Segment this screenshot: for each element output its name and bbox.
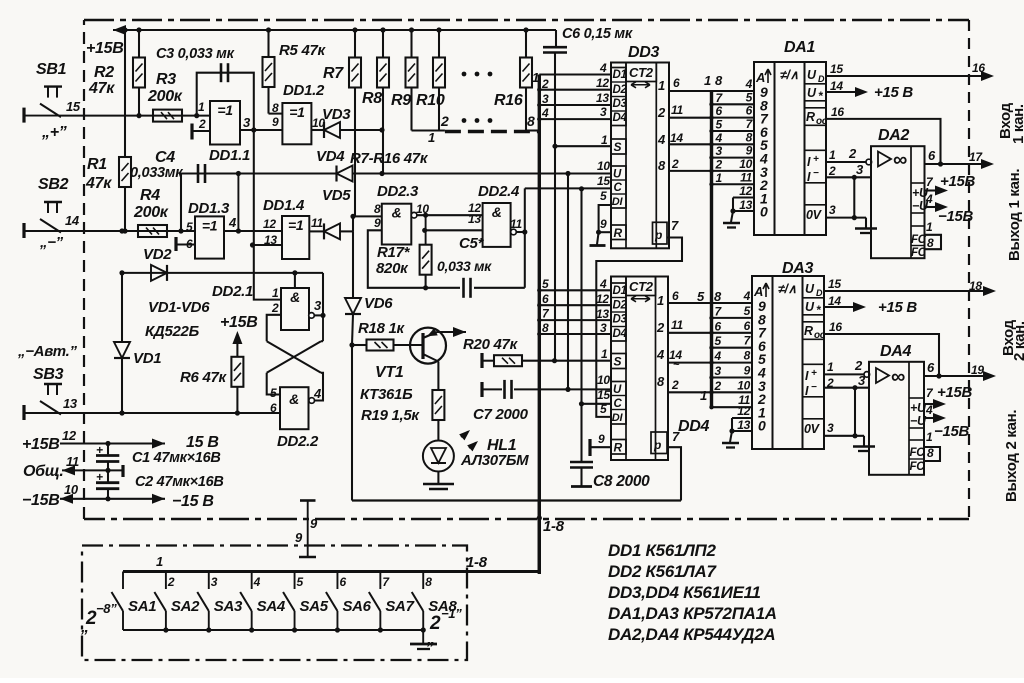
- DD3 C row label: [597, 174, 610, 188]
- svg-text:4: 4: [715, 131, 723, 145]
- svg-text:SA2: SA2: [171, 598, 200, 615]
- label +15V top-left: [86, 40, 124, 57]
- svg-text:15: 15: [828, 277, 841, 291]
- DD3 output 8: [658, 158, 666, 173]
- DA3 rows 12 13: [722, 404, 752, 448]
- label R6 47k: [180, 369, 228, 386]
- label VD6: [364, 295, 393, 312]
- label R20 47k: [463, 336, 519, 353]
- DD3 ground: [590, 232, 606, 245]
- label R3: [147, 71, 183, 105]
- diode VD4 on U-line: [337, 166, 353, 182]
- svg-text:R5 47к: R5 47к: [279, 42, 327, 59]
- SA bus 1-8 (thick): [123, 554, 539, 572]
- svg-text:„−”: „−”: [39, 234, 64, 251]
- svg-text:9: 9: [374, 216, 381, 230]
- label pin5 DD2.2: [270, 386, 277, 400]
- svg-text:КТ361Б: КТ361Б: [360, 386, 413, 403]
- DD3 UCD cells: [611, 166, 626, 208]
- wire label 3: [542, 92, 549, 106]
- DA3 pin15 line: [824, 277, 996, 296]
- svg-text:+15В: +15В: [940, 173, 976, 190]
- svg-text:4: 4: [656, 347, 665, 362]
- svg-text:FC: FC: [910, 461, 926, 473]
- capacitor C3 feedback loop: [197, 63, 257, 132]
- svg-text:0V: 0V: [806, 208, 823, 222]
- svg-text:D: D: [816, 288, 823, 298]
- svg-text:DD2.3: DD2.3: [377, 183, 419, 200]
- svg-text:R7-R16 47к: R7-R16 47к: [350, 150, 429, 167]
- DA1 pin2 I-: [826, 164, 872, 180]
- DA2 pin7 +15V: [925, 173, 976, 196]
- svg-text:CT2: CT2: [629, 279, 654, 294]
- svg-text:КД522Б: КД522Б: [145, 323, 200, 340]
- label pin4 DD2.2: [313, 386, 322, 401]
- label R5 47k: [279, 42, 327, 59]
- svg-text:C4: C4: [155, 149, 175, 166]
- svg-text:&: &: [492, 204, 502, 220]
- svg-text:3: 3: [243, 115, 251, 130]
- trunk bus wires 1-8 (thick): [537, 75, 542, 572]
- wire line13: [62, 410, 280, 415]
- svg-text:6: 6: [716, 104, 723, 118]
- wire DD1.2 out pin10: [311, 129, 313, 131]
- svg-text:16: 16: [831, 105, 844, 119]
- svg-text:+15В: +15В: [220, 314, 258, 331]
- svg-text:C2 47мк×16В: C2 47мк×16В: [135, 474, 224, 490]
- DA4 pin4 -15V: [924, 403, 970, 440]
- svg-text:CT2: CT2: [629, 65, 654, 80]
- svg-text:4: 4: [599, 277, 607, 291]
- switch levers SA1-SA8: [112, 572, 433, 633]
- svg-text:4: 4: [925, 403, 933, 417]
- label KD522B: [145, 323, 200, 340]
- svg-text:Выход 2 кан.: Выход 2 кан.: [1003, 410, 1020, 502]
- DA2 FC jumper: [925, 220, 942, 250]
- op-amp DA4: [869, 362, 927, 475]
- wire DD2.4 out up: [516, 188, 527, 287]
- capacitor C1 electrolytic: [96, 443, 119, 470]
- capacitor C7: [482, 380, 611, 399]
- LED arrows: [459, 430, 478, 451]
- diode VD5: [309, 216, 353, 239]
- svg-text:11: 11: [510, 217, 522, 231]
- svg-text:~: ~: [673, 359, 680, 371]
- label 3 DA2in: [856, 162, 864, 177]
- counter DD3 box: [611, 63, 669, 249]
- label SB3: [33, 366, 64, 383]
- wire DD1.1 out pin3: [240, 129, 282, 131]
- DD4 out row8: [668, 378, 712, 392]
- DA3 pin2 I-: [824, 376, 870, 390]
- svg-text:R4: R4: [140, 187, 160, 204]
- +15V supply rail: [113, 25, 556, 35]
- svg-text:11: 11: [740, 170, 752, 184]
- svg-text:6: 6: [927, 360, 935, 375]
- DD3 R cell: [611, 225, 626, 240]
- DD4 S cell: [611, 354, 626, 369]
- DD4 CT2 cell: [626, 277, 656, 302]
- transistor VT1 base bar: [421, 333, 424, 359]
- DD4 D4 row: [539, 321, 611, 335]
- label pin6 DD2.2: [270, 401, 277, 415]
- transistor VT1 collector: [423, 354, 438, 390]
- svg-text:47к: 47к: [85, 175, 112, 192]
- svg-text:A: A: [755, 70, 765, 85]
- svg-text:∞: ∞: [893, 149, 907, 171]
- svg-text:Выход 1 кан.: Выход 1 кан.: [1006, 169, 1023, 261]
- wire label 8: [542, 321, 549, 335]
- label pin11 DD2.4: [510, 217, 522, 231]
- resistor R18: [349, 340, 423, 351]
- C feed: [579, 189, 584, 461]
- DA4 FC jumper: [924, 430, 940, 461]
- svg-text:15: 15: [597, 174, 610, 188]
- DD3 out row1: [669, 76, 712, 91]
- label C5: [459, 235, 485, 252]
- resistor R8: [377, 27, 389, 173]
- svg-text:SA6: SA6: [342, 598, 371, 615]
- wire DD1.1out down to DD1.4 pin13 and DD2.1 pin1: [250, 130, 282, 300]
- wire label 7: [542, 307, 550, 321]
- label R10: [416, 92, 445, 109]
- svg-text:2: 2: [828, 164, 836, 178]
- svg-text:D4: D4: [613, 112, 628, 124]
- label 7 P DD4: [672, 429, 680, 444]
- svg-text:2 кан.: 2 кан.: [1011, 321, 1024, 361]
- svg-text:DA2,DA4 КР544УД2А: DA2,DA4 КР544УД2А: [608, 625, 775, 644]
- svg-text:SB1: SB1: [36, 61, 67, 78]
- DD4 UCD cells: [611, 382, 626, 425]
- svg-text:13: 13: [596, 307, 609, 321]
- DA1 rows 12 13: [723, 184, 754, 228]
- svg-text:2: 2: [657, 105, 666, 120]
- svg-text:+15 В: +15 В: [874, 84, 913, 101]
- svg-text:=1: =1: [217, 102, 233, 118]
- label R7: [323, 65, 344, 82]
- svg-text:2: 2: [198, 117, 206, 131]
- connector pin18: [969, 279, 982, 293]
- svg-text:DD4: DD4: [678, 418, 710, 435]
- svg-text:R16: R16: [494, 92, 523, 109]
- label C7 2000: [473, 406, 529, 423]
- svg-text:DD1.1: DD1.1: [209, 147, 250, 164]
- label VD5: [322, 187, 351, 204]
- svg-text:+15 В: +15 В: [878, 299, 917, 316]
- label R9: [391, 92, 411, 109]
- svg-text:−U: −U: [910, 414, 927, 428]
- label VD4: [316, 148, 345, 165]
- DD3 out row2: [669, 103, 712, 118]
- nand gate DD2.1: [281, 288, 314, 330]
- DD3 D1 row: [539, 61, 611, 75]
- svg-text:3: 3: [600, 321, 607, 335]
- svg-text:13: 13: [596, 91, 609, 105]
- tick pin15: [83, 104, 85, 116]
- svg-text:≠/∧: ≠/∧: [778, 282, 797, 296]
- label obsh: [23, 463, 64, 480]
- label R18 1k: [358, 320, 406, 337]
- svg-text:U: U: [613, 384, 622, 396]
- svg-text:8: 8: [715, 73, 723, 88]
- svg-text:3: 3: [314, 298, 322, 313]
- trunk to SA box: [538, 501, 541, 575]
- DAC DA3: [752, 276, 826, 449]
- label 1-8 at frame: [543, 518, 565, 535]
- svg-text:R2: R2: [94, 64, 114, 81]
- wire DD1.3 out pin4 to DD1.4 pin12: [224, 228, 282, 233]
- svg-text:13: 13: [737, 418, 750, 432]
- svg-text:6: 6: [542, 292, 549, 306]
- DD4 D3 row: [539, 307, 611, 321]
- parts list DD3 DD4: [608, 583, 761, 602]
- svg-text:1: 1: [657, 293, 664, 308]
- push button SB2: [24, 202, 62, 238]
- diode VD2 line: [119, 270, 323, 275]
- svg-text:D1: D1: [613, 69, 627, 81]
- label DD2.3: [377, 183, 419, 200]
- svg-text:1: 1: [428, 130, 435, 145]
- svg-text:3: 3: [600, 105, 607, 119]
- label DA3: [782, 260, 814, 277]
- svg-text:D: D: [818, 74, 825, 84]
- svg-text:R10: R10: [416, 92, 445, 109]
- DD3 D3 row: [539, 91, 611, 105]
- svg-text:200к: 200к: [133, 204, 169, 221]
- svg-text:8: 8: [927, 446, 934, 460]
- label DD1.3: [188, 200, 230, 217]
- svg-text:1: 1: [704, 73, 711, 88]
- main device boundary frame right (dashed): [968, 20, 970, 520]
- label -15V right: [172, 493, 214, 510]
- label 1 trunk2b: [700, 388, 707, 403]
- svg-text:3: 3: [715, 364, 722, 378]
- svg-text:DA4: DA4: [880, 343, 912, 360]
- DD3 S cell: [611, 139, 626, 154]
- svg-text:+: +: [96, 443, 103, 457]
- LED HL1: [423, 441, 454, 472]
- label plus: [41, 124, 67, 141]
- svg-text:=1: =1: [288, 217, 304, 233]
- group bus line R7-R16 (thick dashed): [445, 130, 539, 134]
- svg-text:R20 47к: R20 47к: [463, 336, 519, 353]
- C-line to counters: [525, 186, 611, 191]
- svg-text:18: 18: [969, 279, 982, 293]
- svg-text:C3 0,033 мк: C3 0,033 мк: [156, 46, 235, 62]
- label 1 bus top: [532, 70, 539, 85]
- DD3 out row8: [669, 157, 712, 171]
- label AL307: [460, 452, 529, 469]
- svg-text:200к: 200к: [147, 88, 183, 105]
- diode VD2: [151, 265, 167, 281]
- DD3 out row4: [669, 131, 712, 145]
- label pin9 DD2.3: [374, 216, 381, 230]
- svg-text:„−Авт.”: „−Авт.”: [17, 343, 77, 360]
- svg-text:R9: R9: [391, 92, 411, 109]
- svg-text:2: 2: [541, 77, 549, 91]
- svg-text:11: 11: [671, 318, 683, 332]
- label pin3 DD2.1: [314, 298, 322, 313]
- label SB2: [38, 176, 69, 193]
- pin 15: [66, 99, 81, 114]
- svg-text:FC: FC: [910, 447, 926, 459]
- svg-text:DA1: DA1: [784, 39, 816, 56]
- cross coupling upper: [267, 315, 281, 341]
- DD3 CT2 cell: [626, 63, 656, 88]
- wire DD2.1out down to X: [321, 315, 323, 341]
- svg-text:DD3: DD3: [628, 44, 660, 61]
- svg-text:C6 0,15 мк: C6 0,15 мк: [562, 26, 633, 42]
- svg-text:7: 7: [672, 429, 680, 444]
- DA1 pin3 0V: [826, 177, 866, 220]
- svg-text:15: 15: [597, 388, 610, 402]
- label 2-1: [426, 606, 462, 648]
- DA1 pin15 line (UD out): [826, 62, 994, 81]
- svg-text:8: 8: [658, 158, 666, 173]
- cross coupling lower-left: [267, 373, 280, 395]
- DD3 output 4: [657, 132, 666, 147]
- svg-text:16: 16: [829, 320, 842, 334]
- DA3 pin16 Roc: [824, 320, 939, 376]
- label minus: [39, 234, 64, 251]
- svg-text:0,033мк: 0,033мк: [130, 165, 183, 181]
- label C5 value: [437, 258, 492, 274]
- svg-text:&: &: [392, 205, 402, 221]
- svg-text:DA3: DA3: [782, 260, 814, 277]
- svg-text:5: 5: [270, 386, 277, 400]
- label R7-R16 47k: [350, 150, 429, 167]
- label R8: [362, 90, 382, 107]
- svg-text:R7: R7: [323, 65, 344, 82]
- SA bottom bus: [123, 629, 423, 631]
- nand gate DD2.4: [483, 203, 517, 247]
- svg-text:8: 8: [374, 202, 381, 216]
- resistor R10: [433, 27, 445, 130]
- svg-text:+15В: +15В: [86, 40, 124, 57]
- svg-text:+: +: [811, 368, 817, 379]
- xor gate DD1.1: [210, 101, 240, 145]
- svg-text:&: &: [290, 289, 300, 305]
- -15V row: [60, 482, 165, 504]
- svg-text:3: 3: [858, 373, 866, 388]
- svg-text:1: 1: [156, 554, 163, 569]
- label KT361B: [360, 386, 413, 403]
- label 5 trunk2b: [697, 289, 705, 304]
- wire VD5 node to DD2.3 pin8: [350, 214, 381, 219]
- svg-text:6: 6: [672, 289, 679, 303]
- wire VD2line to DD2.1 box top: [294, 273, 296, 288]
- label R17: [377, 244, 411, 261]
- svg-text:SA4: SA4: [257, 598, 286, 615]
- svg-text:Общ.: Общ.: [23, 463, 64, 480]
- svg-text:8: 8: [425, 575, 432, 589]
- DA1 input rows: [709, 77, 754, 186]
- DA3 pin3 0V: [824, 388, 864, 439]
- DD3 R row: [599, 217, 611, 232]
- svg-text:1: 1: [658, 78, 665, 93]
- label 7 P DD3: [671, 218, 679, 233]
- label Vyhod 1 kan: [1006, 169, 1023, 261]
- label R16: [494, 92, 523, 109]
- DA3 input rows: [709, 289, 752, 409]
- svg-text:+: +: [96, 470, 103, 484]
- svg-text:R3: R3: [156, 71, 176, 88]
- svg-text:14: 14: [65, 213, 80, 228]
- wire DD2.3 out: [417, 213, 483, 218]
- svg-text:12: 12: [737, 404, 750, 418]
- svg-text:5: 5: [697, 289, 705, 304]
- svg-text:„: „: [426, 631, 435, 648]
- label VD3: [322, 106, 351, 123]
- S feed from C6: [552, 53, 557, 361]
- svg-text:6: 6: [715, 319, 722, 333]
- pin 13: [63, 396, 78, 411]
- capacitor C8: [570, 462, 650, 490]
- svg-text:C: C: [614, 182, 623, 194]
- node R2 rail: [136, 27, 141, 32]
- svg-text:4: 4: [313, 386, 322, 401]
- svg-text:5: 5: [746, 90, 753, 104]
- label C1 value: [132, 450, 221, 466]
- svg-text:3: 3: [856, 162, 864, 177]
- label 8 trunk2b: [714, 289, 722, 304]
- wire DD1.3out branch down to DD2.1: [294, 231, 296, 273]
- wire label 2: [541, 77, 549, 91]
- svg-text:0: 0: [758, 418, 766, 434]
- resistor R4: [138, 225, 167, 237]
- labels SA1-SA8: [128, 598, 457, 615]
- svg-text:VD1-VD6: VD1-VD6: [148, 299, 210, 316]
- DD4 DI label: [600, 402, 607, 416]
- label 1 group: [428, 130, 435, 145]
- svg-text:1: 1: [601, 347, 608, 361]
- diode VD3: [311, 122, 384, 138]
- label 15V: [186, 434, 219, 451]
- svg-text:11: 11: [671, 103, 683, 117]
- terminal bar pin2 DD1.1: [192, 124, 210, 140]
- node R1 rail: [122, 27, 127, 32]
- svg-text:A: A: [753, 284, 763, 299]
- svg-text:2: 2: [671, 378, 679, 392]
- capacitor C4 loop: [181, 164, 241, 231]
- svg-text:8: 8: [927, 236, 934, 250]
- svg-text:D3: D3: [613, 98, 628, 110]
- obsh row: [62, 454, 123, 477]
- label VT1: [375, 364, 404, 381]
- svg-text:SB2: SB2: [38, 176, 69, 193]
- svg-text:19: 19: [971, 363, 984, 377]
- svg-text:R: R: [614, 226, 623, 240]
- svg-text:47к: 47к: [88, 80, 115, 97]
- emitter network wire: [352, 345, 681, 501]
- svg-text:U: U: [805, 282, 815, 296]
- svg-text:2: 2: [848, 146, 857, 161]
- label pin3: [243, 115, 251, 130]
- pin 14: [65, 213, 80, 228]
- svg-text:2: 2: [440, 113, 449, 129]
- svg-text:9: 9: [744, 364, 751, 378]
- xor gate DD1.2: [282, 103, 311, 144]
- svg-text:C5*: C5*: [459, 235, 485, 252]
- svg-text:VD6: VD6: [364, 295, 393, 312]
- svg-text:3: 3: [542, 92, 549, 106]
- svg-text:„+”: „+”: [41, 124, 67, 141]
- resistor R6: [231, 331, 243, 416]
- svg-text:5: 5: [542, 277, 549, 291]
- svg-text:15 В: 15 В: [186, 434, 219, 451]
- label +15V bottom: [22, 436, 60, 453]
- connector pin16: [972, 61, 985, 75]
